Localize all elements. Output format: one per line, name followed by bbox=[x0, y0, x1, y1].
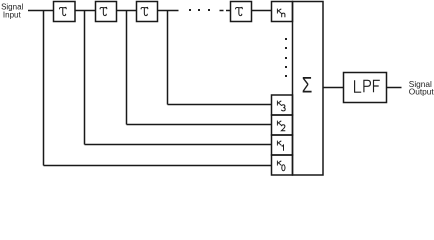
node tap3 bbox=[167, 11, 169, 105]
node Signal Output label bbox=[409, 79, 434, 96]
delay block T2 bbox=[96, 2, 117, 22]
ellipsis horizontal dots bbox=[189, 9, 210, 11]
summer U1 bbox=[293, 2, 324, 176]
delay block Tn bbox=[231, 2, 252, 22]
wire summer to LPF bbox=[323, 87, 344, 89]
wire input to T1 bbox=[28, 10, 54, 12]
delay block T1 bbox=[54, 2, 76, 22]
ellipsis vertical dots bbox=[285, 38, 287, 77]
wire stub into Tn bbox=[226, 10, 231, 12]
svg-text:Output: Output bbox=[409, 87, 434, 97]
node Signal Input label bbox=[1, 2, 23, 19]
multiplier k2 bbox=[272, 115, 293, 135]
wire T3 toward ellipsis bbox=[158, 10, 179, 12]
multiplier k3 bbox=[272, 95, 293, 115]
node tap0 bbox=[43, 11, 45, 166]
multiplier k0 bbox=[272, 155, 293, 175]
wire Tn to kn bbox=[252, 10, 272, 12]
wire tap3 to k3 bbox=[168, 104, 272, 106]
wire tap0 to k0 bbox=[44, 165, 272, 167]
wire ellipsis to Tn bbox=[220, 10, 224, 12]
filter LPF bbox=[344, 73, 387, 103]
multiplier k1 bbox=[272, 135, 293, 155]
delay block T3 bbox=[137, 2, 158, 22]
wire T2 to T3 bbox=[117, 10, 137, 12]
wire tap1 to k1 bbox=[85, 144, 272, 146]
multiplier kn bbox=[272, 2, 293, 22]
node tap2 bbox=[126, 11, 128, 125]
node tap1 bbox=[84, 11, 86, 145]
wire LPF to output bbox=[387, 87, 402, 89]
wire tap2 to k2 bbox=[127, 124, 272, 126]
svg-text:Σ: Σ bbox=[302, 72, 313, 97]
svg-text:Input: Input bbox=[3, 10, 22, 19]
wire T1 to T2 bbox=[75, 10, 96, 12]
